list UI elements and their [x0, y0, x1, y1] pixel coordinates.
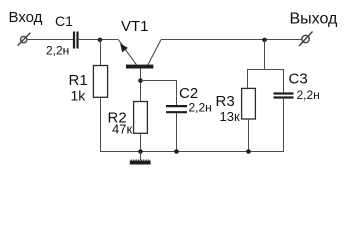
resistor R3 — [242, 88, 256, 152]
capacitor C3 — [274, 94, 294, 98]
svg-text:2,2н: 2,2н — [46, 44, 69, 58]
collector lead — [148, 40, 161, 65]
input terminal — [18, 33, 31, 46]
svg-text:C1: C1 — [55, 13, 73, 29]
svg-text:13к: 13к — [220, 109, 240, 124]
svg-text:47к: 47к — [112, 122, 132, 137]
emitter lead with arrow — [119, 40, 137, 65]
svg-text:VT1: VT1 — [121, 18, 149, 35]
resistor R1 — [93, 40, 107, 153]
base lead down — [140, 68, 142, 102]
node B (base junction dot) — [138, 78, 143, 83]
node output junction dot — [262, 38, 267, 43]
ground — [130, 152, 151, 165]
ground rail (bottom wire) — [100, 151, 284, 153]
output terminal — [299, 32, 313, 47]
node R2/ground junction — [138, 149, 143, 154]
svg-text:C3: C3 — [289, 71, 308, 88]
wire C1 to node A — [79, 39, 119, 41]
wire output node down and split — [248, 40, 265, 89]
node A (input junction dot) — [98, 38, 103, 43]
wire base node to C2 — [141, 81, 177, 106]
node C2/rail junction — [174, 149, 179, 154]
svg-text:1k: 1k — [71, 88, 87, 104]
svg-text:Вход: Вход — [9, 9, 43, 26]
wire split to C3 branch — [265, 70, 284, 93]
resistor R2 — [134, 102, 148, 153]
base bar — [126, 65, 153, 69]
node R3/rail junction — [246, 149, 251, 154]
capacitor C1 — [74, 32, 78, 49]
wire input to C1 — [27, 39, 73, 41]
wire C3 to rail — [283, 99, 285, 152]
wire C2 to rail — [176, 113, 178, 152]
capacitor C2 — [166, 106, 187, 112]
svg-text:R3: R3 — [216, 93, 235, 110]
svg-text:2,2н: 2,2н — [189, 101, 212, 115]
svg-text:C2: C2 — [179, 85, 198, 102]
transistor VT1 — [119, 40, 161, 102]
svg-text:R1: R1 — [69, 72, 88, 89]
wire collector to output terminal — [161, 39, 302, 41]
svg-text:2,2н: 2,2н — [297, 88, 320, 102]
svg-text:Выход: Выход — [290, 11, 339, 28]
